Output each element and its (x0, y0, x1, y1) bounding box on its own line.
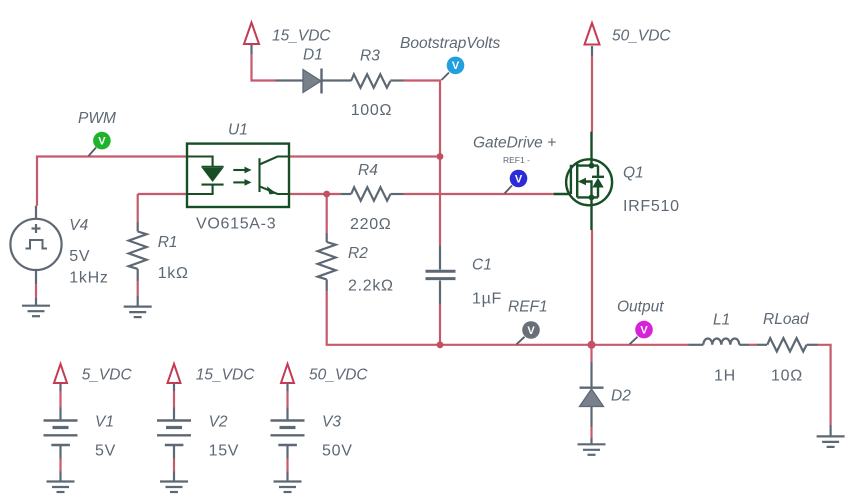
svg-text:V: V (98, 135, 106, 147)
svg-text:50_VDC: 50_VDC (309, 367, 368, 384)
svg-text:REF1 -: REF1 - (503, 155, 530, 165)
svg-text:V1: V1 (95, 414, 114, 431)
svg-text:V: V (527, 325, 535, 337)
svg-text:C1: C1 (472, 257, 492, 274)
svg-text:D1: D1 (303, 47, 323, 64)
svg-text:GateDrive +: GateDrive + (473, 135, 556, 152)
svg-text:Output: Output (617, 299, 664, 316)
svg-text:BootstrapVolts: BootstrapVolts (400, 35, 500, 52)
svg-text:15_VDC: 15_VDC (272, 28, 331, 45)
svg-text:V4: V4 (69, 217, 88, 234)
svg-text:D2: D2 (611, 388, 631, 405)
svg-text:1kΩ: 1kΩ (158, 265, 189, 282)
svg-text:R4: R4 (358, 162, 378, 179)
svg-text:5_VDC: 5_VDC (82, 367, 133, 384)
svg-text:IRF510: IRF510 (623, 198, 680, 215)
svg-text:220Ω: 220Ω (350, 216, 391, 233)
svg-text:1µF: 1µF (472, 291, 502, 308)
svg-text:R1: R1 (158, 234, 178, 251)
svg-text:50V: 50V (322, 443, 353, 460)
svg-text:V2: V2 (209, 414, 228, 431)
svg-text:15V: 15V (209, 443, 240, 460)
svg-text:10Ω: 10Ω (771, 368, 803, 385)
svg-text:REF1: REF1 (508, 299, 548, 316)
svg-text:15_VDC: 15_VDC (196, 367, 255, 384)
svg-text:L1: L1 (713, 312, 730, 329)
svg-text:50_VDC: 50_VDC (612, 28, 671, 45)
svg-text:V: V (452, 60, 460, 72)
svg-text:U1: U1 (228, 122, 248, 139)
svg-text:VO615A-3: VO615A-3 (196, 216, 276, 233)
svg-text:V: V (515, 173, 523, 185)
svg-text:1H: 1H (714, 368, 736, 385)
svg-text:R2: R2 (348, 245, 368, 262)
svg-text:PWM: PWM (78, 110, 116, 127)
svg-text:R3: R3 (360, 47, 380, 64)
svg-text:V: V (640, 324, 648, 336)
svg-text:2.2kΩ: 2.2kΩ (348, 278, 394, 295)
svg-text:100Ω: 100Ω (351, 102, 392, 119)
svg-text:5V: 5V (95, 443, 116, 460)
svg-text:V3: V3 (322, 414, 341, 431)
svg-text:RLoad: RLoad (763, 311, 810, 328)
svg-text:Q1: Q1 (623, 165, 644, 182)
svg-text:5V: 5V (69, 248, 90, 265)
svg-text:1kHz: 1kHz (69, 270, 108, 287)
